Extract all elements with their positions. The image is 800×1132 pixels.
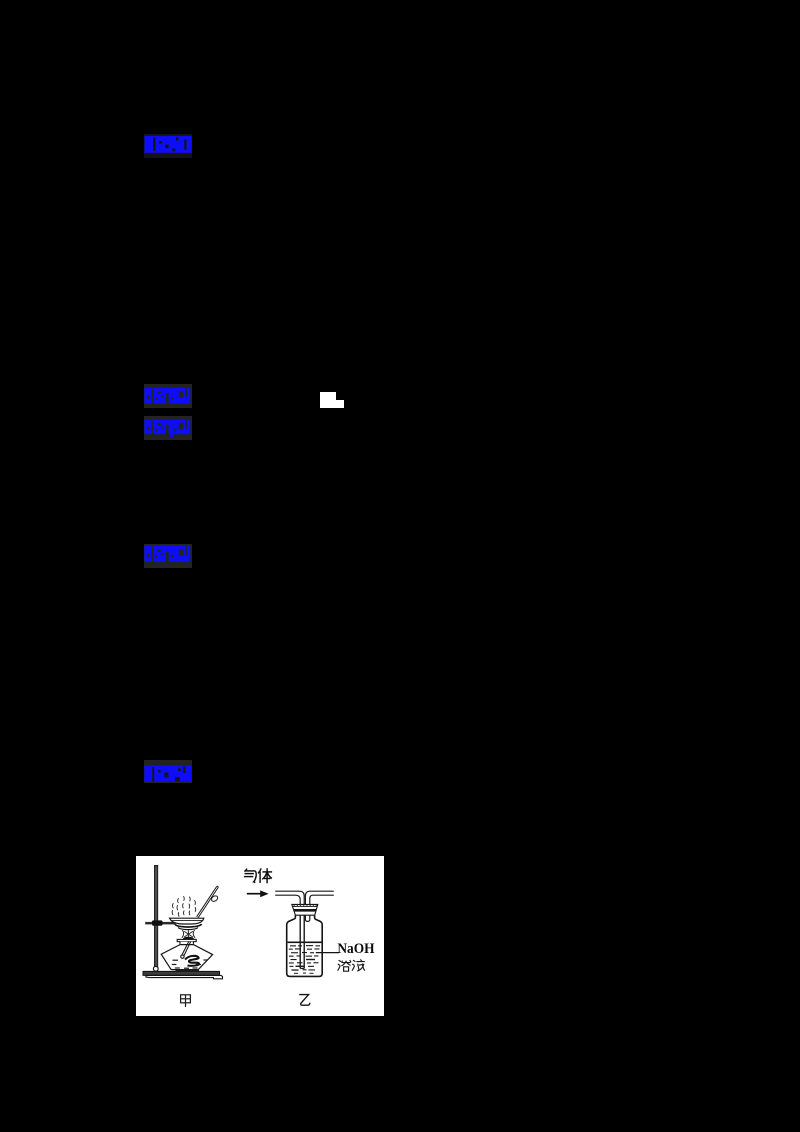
left tube (inlet, long)	[275, 891, 304, 968]
liquid dashes	[289, 945, 320, 974]
node label2 : blue heading block 2	[144, 384, 192, 408]
formula image (white) O2	[320, 392, 336, 408]
label 气体	[244, 868, 272, 883]
node label4 : blue heading block 4	[144, 544, 192, 568]
rod foot ring	[153, 966, 158, 971]
node label3 : blue heading block 3	[144, 416, 192, 440]
right tube (outlet, short)	[305, 891, 333, 921]
lamp neck	[180, 942, 193, 945]
alcohol squiggle	[185, 956, 199, 966]
溶液 text	[338, 959, 365, 971]
node label1 : blue heading block 1	[144, 134, 192, 158]
glass rod	[197, 886, 219, 917]
inner long tube	[300, 915, 304, 968]
flame / burner top	[182, 930, 195, 938]
lamp cap plate	[177, 939, 196, 941]
lamp body	[161, 945, 212, 970]
gas arrow	[247, 893, 261, 895]
NaOH pointer line	[316, 952, 339, 954]
wick	[182, 942, 189, 955]
label 甲	[181, 995, 191, 1007]
evaporating dish	[170, 918, 204, 924]
svg-text:NaOH: NaOH	[337, 941, 374, 957]
bottle body	[287, 915, 323, 976]
iron ring under dish	[175, 924, 202, 927]
steam wisps	[172, 897, 196, 917]
node label5 : blue heading block 5	[144, 760, 192, 784]
stopper	[292, 904, 318, 915]
iron stand rod	[154, 865, 158, 972]
lamp liquid dashes	[172, 959, 208, 968]
lamp base shadow	[176, 970, 200, 972]
liquid surface	[288, 942, 322, 944]
diagram image (white background)	[136, 856, 384, 1016]
lamp collar (dark)	[183, 937, 194, 941]
label 乙	[299, 995, 310, 1006]
stand base top bar	[143, 971, 220, 975]
stand base bottom bar	[146, 975, 223, 978]
clamp knob	[152, 920, 163, 925]
clamp arm	[145, 922, 175, 925]
